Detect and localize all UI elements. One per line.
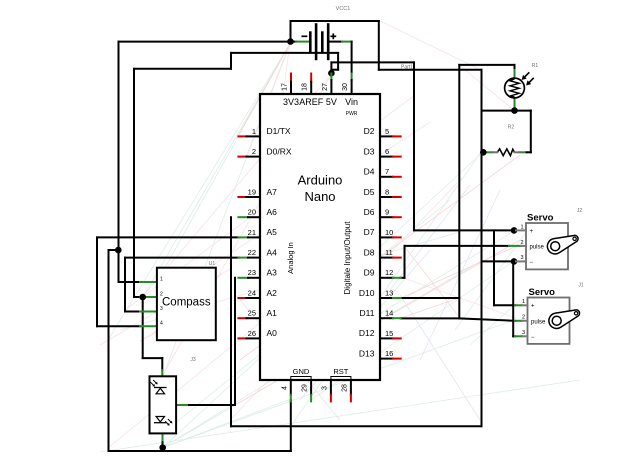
wire 5V left drop (133, 69, 135, 297)
pin 18 AREF (299, 74, 324, 108)
pin 2 D0/RX (238, 146, 291, 156)
svg-text:12: 12 (385, 268, 393, 277)
svg-text:2: 2 (522, 315, 525, 321)
svg-text:J3: J3 (190, 357, 196, 363)
pin 21 A5 (238, 227, 277, 237)
node LDR bottom (511, 107, 518, 114)
wire GND pin4 drop (290, 401, 292, 452)
wire A6 drop (230, 217, 232, 426)
pin 3 bottom (321, 380, 331, 401)
wire (379, 69, 482, 71)
pin 22 A4 (238, 247, 277, 257)
svg-text:1: 1 (522, 299, 525, 305)
wire battery minus rail (119, 41, 297, 43)
svg-text:Servo: Servo (527, 213, 554, 224)
wire D10 (401, 297, 460, 299)
svg-text:2: 2 (520, 240, 523, 246)
svg-text:Vin: Vin (345, 97, 358, 107)
svg-text:D11: D11 (360, 308, 375, 318)
wire 5V to servo J2 pin1 (414, 229, 514, 231)
resistor R2 (492, 125, 519, 156)
svg-text:3: 3 (520, 255, 523, 261)
svg-text:Analog In: Analog In (286, 242, 295, 274)
svg-text:3: 3 (522, 330, 525, 336)
node battery minus (287, 38, 294, 45)
wire LDR top feed (459, 64, 514, 66)
pin 9 D6 (364, 207, 401, 217)
wire A4 to compass pin3 (125, 257, 239, 259)
wire plus to Vin pin30 (351, 42, 353, 72)
svg-text:4: 4 (281, 386, 288, 390)
pin 20 A6 (238, 207, 277, 217)
svg-text:A7: A7 (267, 187, 278, 197)
pin 2 J2 pulse (509, 240, 545, 251)
svg-text:14: 14 (385, 309, 393, 318)
pin 16 D13 (359, 348, 401, 358)
wire D9 to J2 pulse (401, 277, 405, 279)
wire plus rail to J1 pin1 (493, 230, 495, 305)
svg-text:VCC1: VCC1 (336, 6, 351, 12)
svg-text:24: 24 (248, 288, 256, 297)
svg-text:U1: U1 (209, 261, 216, 267)
svg-text:22: 22 (248, 248, 256, 257)
wire 5V from pin27 (231, 52, 338, 54)
svg-text:26: 26 (248, 329, 256, 338)
svg-text:RST: RST (333, 367, 348, 376)
pin 7 D4 (364, 167, 401, 177)
svg-text:R2: R2 (508, 125, 515, 131)
svg-text:2: 2 (252, 147, 256, 156)
node GND compass junction (115, 247, 122, 254)
pin 17 3V3 (282, 74, 300, 108)
svg-text:D8: D8 (364, 247, 375, 257)
pin 5 D2 (364, 126, 401, 136)
node LED bottom GND (159, 444, 166, 451)
wire battery plus (328, 41, 342, 43)
ratsnest guide lines (100, 21, 580, 452)
svg-text:D3: D3 (364, 146, 375, 156)
svg-text:D2: D2 (364, 126, 375, 136)
wire A3 drop (234, 278, 236, 405)
wire down to LED top (142, 297, 144, 358)
svg-text:18: 18 (302, 83, 309, 91)
svg-text:16: 16 (385, 349, 393, 358)
svg-text:1: 1 (160, 277, 163, 283)
wire GND left drop (118, 42, 120, 250)
svg-text:5: 5 (385, 127, 389, 136)
svg-text:3: 3 (321, 386, 328, 390)
svg-text:27: 27 (322, 83, 329, 91)
svg-text:Part1: Part1 (401, 65, 413, 71)
pin 30 Vin (342, 74, 358, 108)
svg-text:9: 9 (385, 208, 389, 217)
svg-text:Arduino: Arduino (298, 173, 343, 188)
svg-text:−: − (531, 335, 535, 341)
wire left GND rail (108, 250, 110, 451)
svg-text:GND: GND (293, 367, 310, 376)
wire bottom GND run (109, 450, 291, 452)
node J2 pin1 (511, 227, 518, 234)
wire R2 left lead (483, 151, 486, 153)
wire J2 pin3 to J1 pin3 (512, 261, 514, 336)
svg-text:D12: D12 (359, 328, 375, 338)
wire (134, 68, 231, 70)
svg-text:A1: A1 (267, 308, 278, 318)
pin 28 bottom (341, 380, 351, 401)
svg-text:17: 17 (282, 83, 289, 91)
svg-text:29: 29 (302, 384, 309, 392)
svg-text:D6: D6 (364, 207, 375, 217)
compass module U1 (157, 261, 216, 340)
pin 27 5V (322, 74, 337, 108)
svg-text:D10: D10 (359, 288, 375, 298)
svg-text:−: − (530, 260, 534, 266)
svg-text:4: 4 (160, 321, 163, 327)
wire (413, 62, 415, 230)
svg-text:28: 28 (341, 384, 348, 392)
svg-text:D13: D13 (359, 348, 375, 358)
wire bottom GND to nano (231, 425, 482, 427)
pin 19 A7 (238, 187, 277, 197)
LED module J3 (150, 357, 196, 433)
node pin27 5V junction (328, 70, 335, 77)
svg-text:7: 7 (385, 167, 389, 176)
wire LDR top lead (514, 65, 516, 70)
pin 2 J1 pulse (515, 315, 546, 326)
node J2 pin3 (511, 258, 518, 265)
svg-text:3V3: 3V3 (283, 97, 299, 107)
svg-text:pulse: pulse (530, 244, 545, 250)
pin 1 D1/TX (238, 126, 291, 136)
svg-text:D9: D9 (364, 268, 375, 278)
battery VCC1 (302, 6, 351, 60)
node compass pin2 junction (139, 294, 146, 301)
svg-text:A2: A2 (267, 288, 278, 298)
pin 26 A0 (238, 328, 277, 338)
wire jog into pin27 (337, 53, 339, 70)
svg-text:5V: 5V (326, 97, 337, 107)
photoresistor R1 (505, 63, 539, 98)
svg-text:J1: J1 (578, 283, 584, 289)
pin 8 D5 (364, 187, 401, 197)
pin 6 D3 (364, 146, 401, 156)
pin 29 bottom (302, 380, 312, 401)
pin 12 D9 (364, 268, 401, 278)
pin 23 A3 (238, 268, 277, 278)
svg-text:30: 30 (342, 83, 349, 91)
wire battery-minus top loop (291, 20, 379, 22)
wire LED mid pin (176, 404, 189, 406)
wire (230, 53, 232, 69)
svg-text:Digitale Input/Output: Digitale Input/Output (343, 221, 352, 295)
svg-text:D0/RX: D0/RX (267, 146, 292, 156)
pin 1 J1 + (515, 299, 535, 310)
wire D11 riser (458, 65, 460, 319)
svg-text:pulse: pulse (531, 319, 546, 325)
svg-text:19: 19 (248, 187, 256, 196)
LED D-down symbol (154, 417, 172, 426)
svg-text:1: 1 (520, 224, 523, 230)
svg-text:8: 8 (385, 187, 389, 196)
svg-text:D4: D4 (364, 167, 375, 177)
svg-text:A4: A4 (267, 247, 278, 257)
svg-text:10: 10 (385, 228, 393, 237)
wire LDR bottom lead (514, 98, 516, 111)
wire GND right rail (481, 70, 483, 427)
pin 3 J1 - (515, 330, 535, 341)
svg-text:+: + (530, 229, 534, 235)
wire (290, 21, 292, 42)
wire (530, 111, 532, 153)
pin 24 A2 (238, 288, 277, 298)
svg-text:23: 23 (248, 268, 256, 277)
pin 15 D12 (359, 328, 401, 338)
svg-text:15: 15 (385, 329, 393, 338)
svg-text:D1/TX: D1/TX (267, 126, 291, 136)
svg-text:PWR: PWR (346, 111, 358, 117)
node R2 left (480, 149, 487, 156)
wire divider to R2 (482, 110, 531, 112)
wire (109, 249, 119, 251)
svg-text:R1: R1 (532, 63, 539, 69)
svg-text:3: 3 (160, 306, 163, 312)
pin 10 D7 (364, 227, 401, 237)
wire A5 to compass pin4 (97, 236, 238, 238)
wire GND branch to J2 pin3 (482, 260, 515, 262)
servo J2 (526, 208, 582, 269)
wire to compass pin1 (118, 250, 120, 282)
svg-text:Servo: Servo (529, 287, 556, 298)
label RST bracket (331, 367, 351, 380)
svg-text:11: 11 (385, 248, 393, 257)
pin 3 J2 - (516, 255, 534, 266)
svg-text:20: 20 (248, 208, 256, 217)
svg-text:D7: D7 (364, 227, 375, 237)
pin 1 J2 + (516, 224, 534, 235)
svg-text:AREF: AREF (299, 97, 324, 107)
label GND bracket (291, 367, 311, 380)
wire LED bottom lead (162, 433, 164, 442)
wire 5V rail to servos (331, 61, 414, 63)
svg-text:Nano: Nano (304, 189, 335, 204)
svg-text:Compass: Compass (162, 297, 211, 309)
pin 11 D8 (364, 247, 401, 257)
op-amp U? Arduino Nano body (260, 94, 380, 380)
LED D-up symbol (151, 380, 167, 394)
servo J1 (528, 283, 584, 344)
svg-text:A0: A0 (267, 328, 278, 338)
pin 25 A1 (238, 308, 277, 318)
svg-text:A3: A3 (267, 268, 278, 278)
svg-text:6: 6 (385, 147, 389, 156)
svg-text:J2: J2 (577, 208, 583, 214)
svg-text:13: 13 (385, 288, 393, 297)
svg-text:+: + (531, 304, 535, 310)
pin 13 D10 (359, 288, 401, 298)
svg-text:2: 2 (160, 292, 163, 298)
svg-text:D5: D5 (364, 187, 375, 197)
svg-text:A5: A5 (267, 227, 278, 237)
wire to compass pin2 (134, 296, 140, 298)
svg-text:A6: A6 (267, 207, 278, 217)
pin 4 bottom (281, 380, 291, 401)
pin 14 D11 (360, 308, 401, 318)
svg-text:1: 1 (252, 127, 256, 136)
wire R2 right lead (520, 151, 527, 153)
svg-text:21: 21 (248, 228, 256, 237)
svg-text:25: 25 (248, 309, 256, 318)
wire GND loop right (378, 21, 380, 70)
wire D11 to J1 pulse (401, 317, 460, 319)
